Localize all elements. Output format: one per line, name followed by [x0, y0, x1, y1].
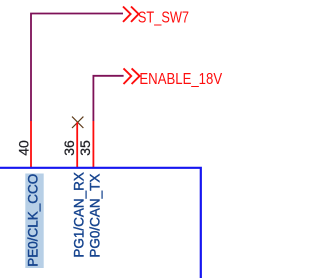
wire to ENABLE_18V port — [93, 76, 123, 121]
component outline (IC body corner) — [0, 168, 201, 278]
svg-text:PE0/CLK_CCO: PE0/CLK_CCO — [26, 174, 41, 267]
off-page connector chevrons ST_SW7 — [123, 7, 139, 22]
wire to ST_SW7 port — [31, 14, 123, 122]
pin name PG0/CAN_TX — [87, 174, 102, 258]
svg-text:PG0/CAN_TX: PG0/CAN_TX — [87, 174, 102, 258]
pin name PG1/CAN_RX — [72, 172, 87, 258]
net label ST_SW7 — [138, 9, 189, 27]
svg-text:PG1/CAN_RX: PG1/CAN_RX — [72, 172, 87, 258]
pin number 35 — [77, 140, 93, 156]
svg-text:36: 36 — [61, 140, 77, 156]
pin number 36 — [61, 140, 77, 156]
pin 35 — [92, 121, 94, 168]
no-connect X on pin 36 — [72, 117, 83, 128]
svg-text:35: 35 — [77, 140, 93, 156]
pin 36 — [76, 122, 78, 168]
svg-text:40: 40 — [15, 140, 31, 156]
off-page connector chevrons ENABLE_18V — [124, 68, 140, 84]
svg-text:ENABLE_18V: ENABLE_18V — [139, 71, 222, 88]
svg-text:ST_SW7: ST_SW7 — [138, 9, 189, 27]
pin name PE0/CLK_CCO — [26, 174, 41, 267]
selection highlight on pin name PE0/CLK_CCO — [25, 174, 43, 269]
pin 40 — [30, 121, 32, 168]
pin number 40 — [15, 140, 31, 156]
net label ENABLE_18V — [139, 71, 222, 88]
